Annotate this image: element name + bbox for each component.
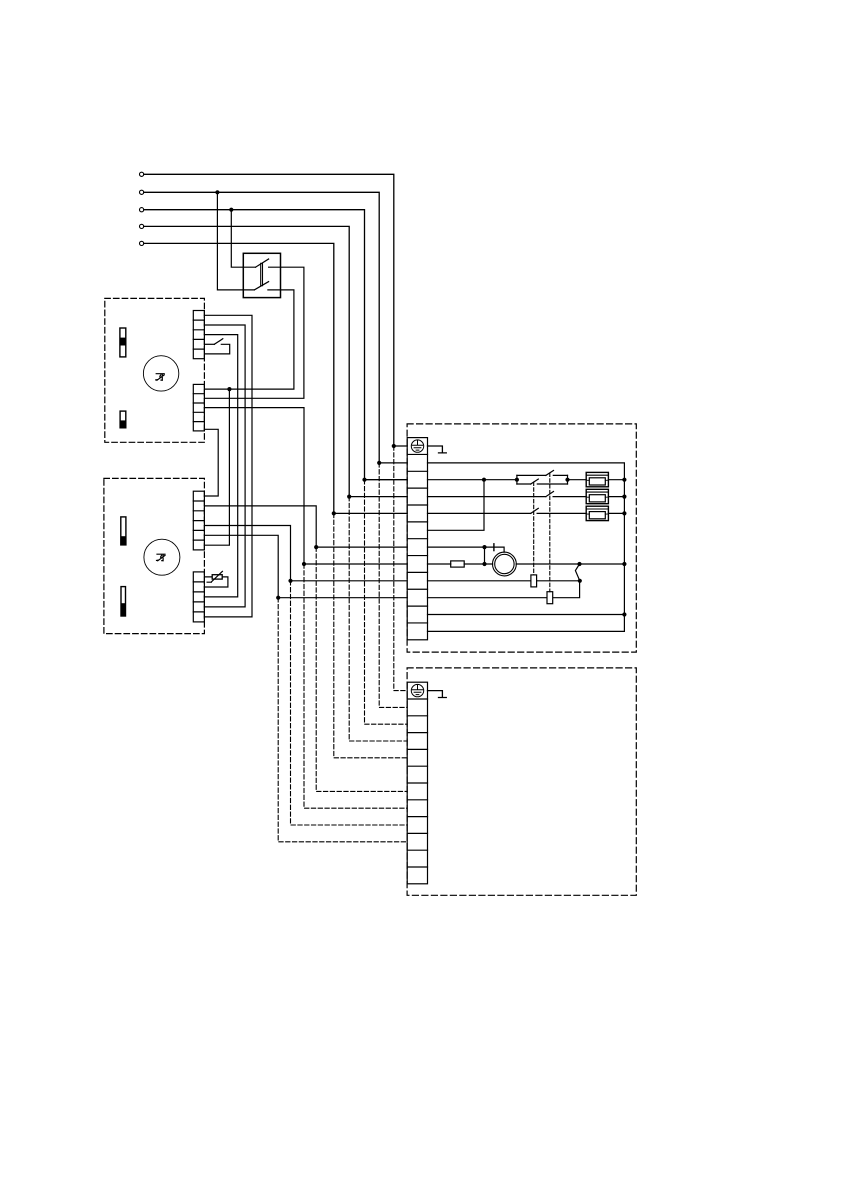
wire element R3 to right bus [608, 512, 624, 514]
oven2 thermal cutout F2 between X4 pin1 and pin2 [204, 571, 228, 587]
wire mains L2 to strip1 cell2 [144, 192, 407, 463]
oven1 indicator lamp E1 [120, 328, 126, 357]
harness wire (dashed) strip1 cell2 to strip2 cell2 [379, 463, 407, 708]
wire element R2 to right bus [608, 496, 624, 498]
node motor output [577, 562, 581, 566]
wire oven1 X1 pin2 to oven2 X4 pin4 [204, 325, 245, 607]
wire strip1 cell9 through thermostat body [428, 580, 580, 582]
node bus row4 [622, 495, 626, 499]
heating element R2 [586, 489, 608, 503]
node strip1 cell3 [362, 478, 366, 482]
module2 enclosure (dashed) [407, 668, 636, 895]
oven1 enclosure (dashed) [105, 298, 205, 442]
node strip1 cell10 [276, 596, 280, 600]
node strip1 cell4 [347, 495, 351, 499]
mains terminal L3 [140, 208, 144, 212]
module1 terminal strip (12 ways) [407, 438, 427, 640]
harness wire (dashed) strip1 cell9 to strip2 cell9 [291, 581, 408, 825]
thermostat linkage (dashed) T1 [533, 482, 535, 575]
wire strip1 cell7 to motor capacitor branch [428, 547, 505, 552]
wire strip1 cell6 up to cell3 node [428, 480, 485, 531]
module1 PE terminal symbol [411, 440, 423, 452]
oven2 element E4 [121, 587, 126, 616]
mains terminal L1 [140, 172, 144, 176]
wire contactor bottom output to oven1 lower strip cell1 [204, 290, 294, 389]
mains terminal L4 [140, 224, 144, 228]
node switch block left [515, 478, 519, 482]
wire oven1 X1 pin1 to oven2 X4 pin5 [204, 315, 252, 617]
oven2 indicator lamp E3 [121, 517, 126, 545]
thermostat contact blade row5 [531, 508, 539, 513]
harness wire (dashed) strip1 cell3 to strip2 cell3 [365, 480, 408, 725]
node switch block right [565, 478, 569, 482]
wire strip1 cell11 to right bus [428, 614, 625, 616]
wire oven1 X2 pin3 to strip1 cell8 [204, 408, 407, 564]
node cell8 branch [482, 562, 486, 566]
node strip1 cell8 [302, 562, 306, 566]
thermostat linkage (dashed) T2 [549, 473, 551, 592]
wire oven1 X1 pin3 to oven2 X4 pin3 [204, 335, 237, 597]
module1 enclosure (dashed) [407, 424, 636, 652]
module1 chassis earth symbol [428, 446, 447, 453]
node strip1 cell2 [377, 461, 381, 465]
contactor K1 top contact blade [256, 259, 269, 267]
wire element R1 to right bus [608, 479, 624, 481]
wire motor M3 to right bus [516, 563, 624, 565]
node oven1 X2 pin1 junction [227, 387, 231, 391]
heating element R3 [586, 506, 608, 520]
thermostat body T2 [547, 592, 553, 604]
wire strip1 cell3 to switch block [428, 479, 517, 481]
node bus row5 [622, 511, 626, 515]
node mains L3 branch [229, 208, 233, 212]
wire link cell7 to cell8 [484, 547, 486, 564]
wire mains L4 to strip1 cell4 [144, 226, 407, 496]
mains terminal L2 [140, 190, 144, 194]
wire oven2 X3 pin5 to strip1 cell10 [204, 535, 407, 597]
contactor K1 bottom contact blade [254, 282, 268, 290]
wire mains L3 to strip1 cell3 [144, 210, 407, 480]
harness wire (dashed) strip1 cell8 to strip2 cell8 [304, 564, 407, 808]
node mains L2 branch [215, 190, 219, 194]
contactor K1 box [243, 253, 280, 297]
node bus row8 [622, 562, 626, 566]
harness wire (dashed) strip1 cell4 to strip2 cell4 [349, 497, 407, 741]
oven2 connector X3 (upper, 6 ways) [193, 491, 204, 550]
mains terminal L5 [140, 241, 144, 245]
node bus row3 [622, 478, 626, 482]
module2 chassis earth symbol [428, 691, 447, 698]
wire oven2 X3 pin2 to strip1 cell7 [204, 506, 407, 547]
interior lamp E5 [451, 561, 465, 567]
wire contactor top output to oven1 lower strip cell2 [204, 267, 304, 398]
thermostat body T1 [531, 575, 537, 587]
node bus row11 [622, 612, 626, 616]
wire strip1 cell4 with thermostat contact [428, 496, 587, 498]
wire oven1 X2 bottom to oven2 X3 pin1 [204, 429, 218, 496]
module2 terminal strip (12 ways) [407, 682, 427, 884]
wire oven1 X2 pin1 junction down to oven2 X3 pin6 [204, 389, 229, 545]
wire mains L2 branch to contactor bottom pole [217, 192, 254, 290]
node strip1 cell5 [332, 511, 336, 515]
wire switch block to element R1 [568, 479, 587, 481]
wire mains L3 branch to contactor top pole [231, 210, 255, 268]
wire mains L5 to strip1 cell5 [144, 243, 407, 513]
thermostat contact blade row4 [546, 492, 554, 497]
harness wire (dashed) strip1 cell1 to strip2 cell1 [394, 446, 407, 691]
oven2 enclosure (dashed) [104, 478, 204, 633]
harness wire (dashed) strip1 cell5 to strip2 cell5 [334, 513, 407, 757]
node strip1 cell9 [288, 579, 292, 583]
oven1 thermal switch F1 between X1 pin4 and pin5 [204, 339, 229, 354]
wire strip1 cell8 to lamp [428, 563, 451, 565]
oven1 connector X1 (upper, 5 ways) [193, 311, 204, 359]
harness wire (dashed) strip1 cell10 to strip2 cell10 [278, 598, 407, 842]
node strip1 cell1 [392, 444, 396, 448]
oven1 element E2 [120, 411, 126, 428]
oven2 fan motor M2 [144, 539, 180, 575]
capacitor C1 tick [493, 544, 495, 551]
wire strip1 cell2 right bus loop to cell12 [428, 463, 625, 632]
switch block parallel rails [517, 471, 568, 485]
wire mains L1 to strip1 cell1 [144, 174, 407, 446]
oven2 connector X4 (lower, 5 ways) [193, 572, 204, 622]
heating element R1 [586, 472, 608, 486]
fan motor M3 (double circle) [493, 552, 517, 576]
node strip1 cell7 [314, 545, 318, 549]
relay contact blade rows8-9 [575, 564, 579, 581]
wire strip1 cell10 through thermostat body up to cell9 node [428, 581, 580, 598]
wire oven2 X3 pin4 to strip1 cell9 [204, 526, 407, 581]
harness wire (dashed) strip1 cell7 to strip2 cell7 [316, 547, 407, 791]
node cell7 branch [482, 545, 486, 549]
wire strip1 cell5 with thermostat contact [428, 512, 587, 514]
oven1 fan motor M1 [143, 356, 178, 391]
oven1 connector X2 (lower, 5 ways) [193, 384, 204, 431]
node cell3-cell6 link [482, 478, 486, 482]
contactor K1 mechanical linkage [261, 263, 263, 285]
node relay contact bottom [578, 579, 582, 583]
module2 PE terminal symbol [411, 684, 423, 696]
wire lamp to fan motor M3 [464, 563, 492, 565]
